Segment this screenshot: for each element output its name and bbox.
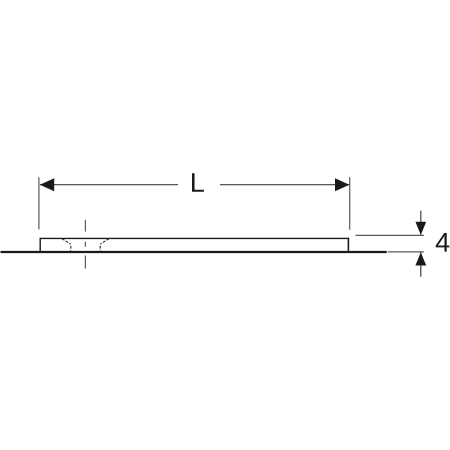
centerline segment bottom	[84, 256, 86, 269]
tray top edge	[40, 237, 348, 239]
arrowhead right	[335, 178, 349, 191]
arrowhead up	[415, 252, 426, 265]
extension line top (4 dimension)	[356, 234, 424, 236]
tray bottom line	[1, 251, 387, 253]
extension line right (L dimension)	[349, 177, 351, 230]
extension line bottom (4 dimension)	[388, 251, 424, 253]
countersink hidden line left vertical	[70, 244, 72, 251]
label 4	[436, 233, 450, 252]
countersink hidden line right slope	[100, 239, 109, 245]
arrowhead left	[40, 178, 54, 191]
tray left edge	[39, 238, 41, 253]
extension line left (L dimension)	[38, 177, 40, 229]
arrowhead down	[415, 222, 426, 235]
centerline segment top	[84, 220, 86, 232]
countersink hidden line right vertical	[99, 244, 101, 251]
tray right edge	[347, 238, 349, 252]
countersink hidden line left slope	[62, 239, 71, 245]
dimension line L (left segment)	[40, 184, 178, 186]
centerline segment middle	[84, 242, 86, 247]
dimension line L (right segment)	[220, 184, 349, 186]
arrow stem upper (4 dimension)	[420, 211, 422, 235]
arrow stem lower (4 dimension)	[420, 253, 422, 277]
label L	[192, 173, 204, 192]
